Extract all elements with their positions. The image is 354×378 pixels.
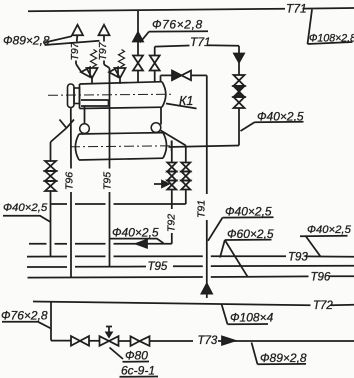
pipe header T71 top line bbox=[28, 8, 354, 11]
centerline lower vessel bbox=[70, 146, 172, 147]
vessel K1 upper shell bbox=[80, 82, 166, 109]
label F108x4 with leader bbox=[222, 304, 274, 325]
valve B3 on T73 bbox=[131, 336, 150, 346]
svg-text:Ф89×2,8: Ф89×2,8 bbox=[260, 351, 307, 365]
label F89x2,8 bottom right with leader bbox=[252, 343, 307, 366]
wire riser to vessel top bbox=[137, 71, 139, 83]
label F76x2,8 with leader bbox=[140, 18, 208, 43]
valve V2 bbox=[150, 56, 160, 71]
svg-text:Ф89×2,8: Ф89×2,8 bbox=[3, 34, 50, 48]
label K1 with leader bbox=[166, 94, 197, 109]
svg-text:Т72: Т72 bbox=[313, 300, 333, 312]
drain header bbox=[51, 203, 186, 205]
pipe branch T71 middle bbox=[155, 45, 239, 46]
pipe T91 vertical bbox=[206, 75, 208, 283]
svg-text:Т97: Т97 bbox=[97, 41, 109, 60]
safety valve SV1 bbox=[81, 67, 98, 84]
drain stack R valve 1 bbox=[181, 163, 190, 172]
pipe header T72 bbox=[33, 302, 354, 306]
safety valve SV2 bbox=[109, 67, 126, 84]
dome circle c1 bbox=[80, 124, 90, 134]
svg-text:Т95: Т95 bbox=[102, 172, 114, 190]
drain funnel Y bbox=[60, 120, 75, 129]
pipe header T95 bbox=[27, 266, 354, 267]
svg-text:Т73: Т73 bbox=[198, 335, 218, 347]
wire drain line upper bbox=[50, 142, 52, 161]
pipe T92 below drain header bbox=[171, 204, 173, 244]
wire arrow to valve stack bbox=[238, 63, 240, 76]
wire upper vessel to c2 bbox=[160, 107, 162, 124]
stack L valve 3 bbox=[167, 181, 176, 190]
svg-text:Ф76×2,8: Ф76×2,8 bbox=[152, 18, 203, 32]
svg-text:Ф108×4: Ф108×4 bbox=[230, 311, 274, 325]
drain valve stack left: valve 3 bbox=[45, 181, 56, 191]
drain valve stack left: valve 1 bbox=[45, 161, 56, 171]
wire funnel diagonal to drain line bbox=[51, 128, 67, 142]
centerline upper vessel bbox=[48, 94, 171, 95]
valve B1 on T73 bbox=[71, 336, 89, 346]
valve stack right: filled valve bbox=[234, 86, 245, 97]
label F108x2,8 with leader box bbox=[308, 10, 354, 45]
check valve bbox=[172, 71, 191, 81]
vessel K1 left head flange bbox=[68, 84, 80, 108]
vent line 2 with arrow bbox=[99, 25, 110, 68]
flow arrow down bbox=[234, 54, 244, 63]
flow arrow into stack L bbox=[154, 181, 169, 187]
valve stack right: hollow valve 2 bbox=[234, 97, 245, 108]
pipe lower vessel right outlet bbox=[169, 146, 240, 148]
flow arrow up at T91 bottom bbox=[202, 284, 213, 298]
svg-text:Т96: Т96 bbox=[64, 172, 76, 190]
drain valve stack left: valve 2 bbox=[45, 171, 56, 181]
svg-text:Ф80: Ф80 bbox=[125, 349, 148, 363]
valve V1 on riser bbox=[133, 56, 143, 71]
svg-text:Т71: Т71 bbox=[190, 35, 211, 49]
svg-text:Т95: Т95 bbox=[148, 261, 168, 273]
drain stack R valve 3 bbox=[181, 181, 190, 190]
svg-text:Ф40×2,5: Ф40×2,5 bbox=[307, 224, 352, 236]
label F89x2,8 with leaders to vents bbox=[3, 34, 100, 48]
svg-text:6с-9-1: 6с-9-1 bbox=[121, 364, 155, 378]
node tick on outlet bbox=[171, 141, 173, 152]
pipe line T73 bbox=[51, 340, 354, 342]
label 6s-9-1 bbox=[120, 364, 159, 378]
vessel lower shell bbox=[75, 133, 166, 160]
spring of SV1 bbox=[91, 50, 97, 68]
wire valve stack down to vessel outlet level bbox=[238, 108, 240, 146]
wire V2 to vessel top bbox=[154, 71, 156, 82]
riser pipe F76 to top header bbox=[137, 11, 139, 56]
svg-text:Т97: Т97 bbox=[69, 41, 81, 60]
svg-text:Т91: Т91 bbox=[196, 200, 208, 218]
wire T71 branch down at right bbox=[238, 46, 240, 54]
wire stack L to drain header bbox=[171, 190, 173, 205]
pipe header T93 bbox=[27, 255, 354, 258]
label F40x2,5 above H1 bbox=[110, 226, 164, 244]
label F40x2,5 right of vessel with leader bbox=[241, 110, 304, 132]
label F40x2,5 for T91 with leader bbox=[208, 205, 274, 241]
label F40x2,5 far right with leader bbox=[300, 224, 352, 257]
wire branch T72 down to T73 bbox=[50, 302, 52, 340]
svg-text:Т96: Т96 bbox=[311, 271, 331, 283]
wire diagonal c2 to drain stack R bbox=[161, 131, 186, 146]
valve B2 on T73 with actuator arrow bbox=[100, 327, 119, 346]
spring of SV2 bbox=[119, 50, 125, 68]
label F40x2,5 left with leader bbox=[3, 202, 51, 222]
stack L valve 2 bbox=[167, 172, 176, 181]
vent line 1 with arrow bbox=[72, 25, 83, 72]
wire upper vessel to c1 bbox=[84, 106, 86, 124]
svg-text:Т71: Т71 bbox=[286, 2, 307, 16]
flow arrow up on riser bbox=[133, 32, 143, 41]
pipe T96 vertical bbox=[70, 108, 72, 278]
wire stack R to drain header bbox=[185, 190, 187, 205]
svg-text:Ф76×2,8: Ф76×2,8 bbox=[1, 309, 48, 323]
stack L valve 1 bbox=[167, 163, 176, 172]
dome circle c2 bbox=[151, 123, 161, 133]
flow arrow right on T73 bbox=[222, 336, 235, 344]
label F80 with leader bbox=[110, 348, 150, 363]
drain stack R valve 2 bbox=[181, 172, 190, 181]
label F76x2,8 with leader bbox=[1, 309, 51, 329]
wire drain line to T93 header bbox=[50, 191, 52, 256]
svg-text:Ф40×2,5: Ф40×2,5 bbox=[3, 202, 48, 214]
svg-text:Ф40×2,5: Ф40×2,5 bbox=[112, 226, 159, 240]
wire corner to valve V2 bbox=[154, 47, 156, 56]
svg-text:Т93: Т93 bbox=[288, 252, 308, 264]
pipe header T96 bbox=[28, 276, 354, 277]
valve stack right: hollow valve bbox=[234, 75, 245, 86]
label F60x2,5 with two leaders bbox=[220, 227, 274, 277]
pipe T95 vertical bbox=[109, 68, 111, 266]
pipe H1 with left arrow bbox=[29, 240, 172, 248]
wire check valve to T91 riser bbox=[191, 74, 207, 76]
drain stack L below vessel bbox=[171, 141, 173, 163]
svg-text:Т92: Т92 bbox=[166, 214, 178, 232]
upper vessel outlet to check valve bbox=[161, 75, 173, 82]
